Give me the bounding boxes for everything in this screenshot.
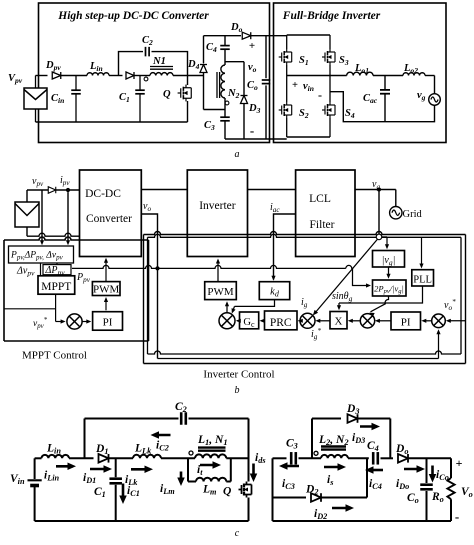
svg-text:Grid: Grid bbox=[403, 209, 423, 220]
svg-text:-: - bbox=[455, 509, 459, 524]
svg-text:LCL: LCL bbox=[309, 193, 331, 205]
svg-text:c: c bbox=[235, 528, 240, 539]
svg-text:a: a bbox=[235, 149, 240, 160]
svg-text:N1: N1 bbox=[152, 56, 166, 67]
svg-text:Q: Q bbox=[223, 486, 231, 498]
svg-text:Inverter Control: Inverter Control bbox=[203, 369, 274, 381]
svg-text:MPPT: MPPT bbox=[41, 281, 71, 293]
svg-text:X: X bbox=[335, 316, 343, 328]
svg-text:Full-Bridge Inverter: Full-Bridge Inverter bbox=[282, 10, 381, 22]
svg-text:|vg|: |vg| bbox=[382, 255, 396, 267]
svg-text:PI: PI bbox=[103, 317, 113, 329]
svg-text:PI: PI bbox=[401, 317, 411, 329]
svg-text:PRC: PRC bbox=[270, 317, 292, 329]
svg-text:PWM: PWM bbox=[93, 284, 120, 296]
svg-text:L1, N1: L1, N1 bbox=[197, 434, 228, 447]
svg-text:PLL: PLL bbox=[413, 274, 432, 285]
svg-text:Converter: Converter bbox=[86, 213, 132, 225]
svg-text:+: + bbox=[249, 40, 255, 52]
svg-text:DC-DC: DC-DC bbox=[85, 188, 121, 200]
svg-text:b: b bbox=[235, 385, 240, 396]
svg-text:Inverter: Inverter bbox=[199, 200, 236, 212]
svg-text:High step-up DC-DC Converter: High step-up DC-DC Converter bbox=[57, 10, 209, 22]
svg-text:Q: Q bbox=[163, 89, 171, 100]
svg-text:+: + bbox=[292, 80, 298, 91]
svg-text:MPPT Control: MPPT Control bbox=[22, 350, 87, 362]
svg-text:PWM: PWM bbox=[207, 286, 234, 298]
svg-text:+: + bbox=[456, 456, 463, 470]
svg-text:-: - bbox=[250, 123, 254, 138]
svg-text:-: - bbox=[318, 88, 322, 102]
svg-text:Filter: Filter bbox=[310, 219, 335, 231]
